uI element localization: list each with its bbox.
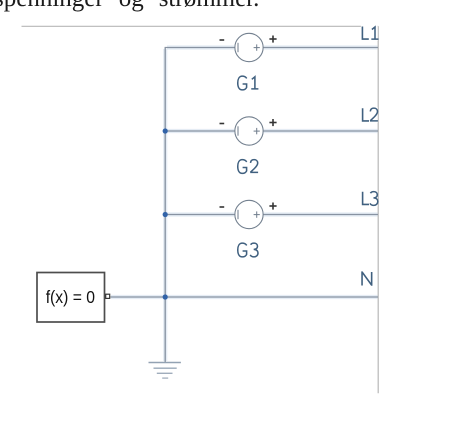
solver block port bbox=[106, 294, 110, 298]
wire row1 left bbox=[165, 47, 235, 49]
frame right gray line bbox=[377, 26, 379, 393]
cropped caption text "spenninger og strømmer." bbox=[0, 0, 259, 13]
voltage source G2 bbox=[220, 117, 277, 145]
bus vertical wire bbox=[164, 48, 166, 363]
label L3 bbox=[360, 191, 378, 207]
wire N row bbox=[111, 296, 379, 298]
junction node N bbox=[163, 294, 168, 299]
label L1 bbox=[361, 25, 379, 41]
label G2 bbox=[238, 160, 258, 174]
solver block f(x)=0 bbox=[37, 273, 105, 323]
voltage source G1 bbox=[220, 33, 277, 61]
junction node row3 bbox=[163, 212, 168, 217]
wire row3 left bbox=[165, 214, 235, 216]
voltage source G3 bbox=[220, 200, 277, 228]
wire row2 right bbox=[263, 130, 378, 132]
wire row3 right bbox=[263, 214, 378, 216]
label G3 bbox=[238, 243, 258, 257]
wire row2 left bbox=[165, 130, 235, 132]
junction node row2 bbox=[163, 128, 168, 133]
label L2 bbox=[360, 107, 378, 123]
label G1 bbox=[238, 76, 259, 90]
wire halos bbox=[111, 48, 378, 362]
wire row1 right bbox=[263, 47, 378, 49]
label N bbox=[360, 271, 375, 287]
svg-text:f(x) = 0: f(x) = 0 bbox=[46, 287, 96, 307]
ground (electrical reference) bbox=[149, 363, 181, 379]
frame top gray line bbox=[22, 25, 379, 27]
